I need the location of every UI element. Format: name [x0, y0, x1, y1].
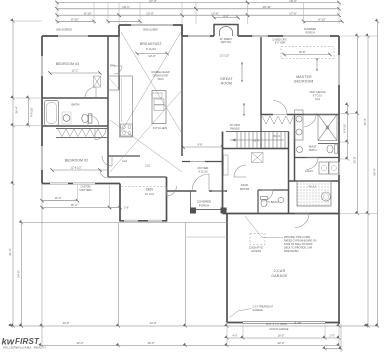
door master bedroom	[273, 101, 287, 115]
svg-text:4'-0": 4'-0"	[232, 334, 237, 338]
svg-text:BATH: BATH	[71, 103, 79, 107]
fridge	[108, 76, 120, 90]
bedroom wing bottom wall	[42, 183, 120, 185]
half bath toilet	[261, 199, 267, 207]
door bath	[88, 115, 99, 126]
svg-text:2'-6": 2'-6"	[124, 207, 129, 210]
svg-text:8'-10": 8'-10"	[84, 12, 92, 16]
joist diagonal 2	[121, 32, 181, 132]
hall/foyer wall above den	[108, 176, 167, 178]
right extension lines	[340, 113, 358, 115]
washer dryer	[319, 162, 329, 174]
svg-text:SHUTTERS: SHUTTERS	[79, 190, 92, 192]
svg-text:36'-4": 36'-4"	[15, 106, 19, 113]
svg-text:BEDROOM: BEDROOM	[294, 80, 313, 84]
svg-text:FIRE RATING: FIRE RATING	[284, 250, 299, 253]
foyer front wall with door opening	[167, 190, 228, 192]
door garage entry	[295, 214, 309, 228]
porch column right	[221, 208, 227, 214]
svg-text:16'-8": 16'-8"	[299, 50, 306, 54]
den ceiling dashed	[121, 186, 166, 188]
master bath bottom / laundry wall	[295, 157, 340, 159]
door mud room	[234, 165, 246, 177]
kw first watermark	[2, 337, 47, 350]
svg-text:12'-0": 12'-0"	[76, 341, 83, 345]
garage top wall	[223, 213, 340, 215]
door laundry	[306, 158, 318, 170]
water heater	[322, 192, 331, 201]
svg-text:GFCI IN GARAGE: GFCI IN GARAGE	[270, 328, 289, 331]
svg-text:2-CAR: 2-CAR	[274, 269, 286, 273]
door half bath	[262, 190, 273, 201]
window bedroom2 bottom 1	[50, 182, 68, 184]
left dimension line bath	[28, 97, 30, 126]
half bath sink	[278, 198, 284, 203]
window bedroom3 left	[41, 56, 43, 76]
svg-text:17'-6": 17'-6"	[289, 12, 297, 16]
right dimension line 2	[357, 36, 359, 214]
window breakfast slider	[131, 24, 173, 26]
svg-text:26'-8": 26'-8"	[353, 156, 357, 163]
master tray ceiling dashed	[281, 47, 334, 59]
svg-text:4'-0": 4'-0"	[223, 14, 229, 18]
door hall to bath	[100, 170, 108, 178]
svg-text:PORCH: PORCH	[305, 31, 314, 34]
door pantry	[114, 66, 122, 74]
wic / hall wall	[261, 115, 289, 149]
bottom right extension line	[340, 324, 342, 352]
svg-text:24'-8": 24'-8"	[17, 270, 21, 277]
svg-text:ROOM: ROOM	[240, 187, 250, 191]
svg-text:GREAT: GREAT	[220, 77, 233, 81]
stair bottom wall	[223, 148, 289, 150]
svg-text:8'-10": 8'-10"	[71, 18, 79, 22]
right dimension line 4	[377, 21, 379, 326]
svg-text:KELLERWILLIAMS. REALTY: KELLERWILLIAMS. REALTY	[3, 346, 46, 350]
front walk line	[20, 222, 227, 224]
svg-text:12'-0": 12'-0"	[146, 12, 154, 16]
window great room	[188, 35, 210, 37]
svg-text:LAUN.: LAUN.	[305, 169, 314, 173]
below-wing dim row 1	[40, 196, 79, 202]
kitchen counter left	[120, 76, 133, 137]
garage bottom wall + door jambs	[227, 322, 339, 324]
right dimension line 3	[367, 36, 369, 326]
svg-text:BREAKFAST: BREAKFAST	[140, 42, 162, 46]
ext line	[109, 185, 111, 208]
svg-text:19'-1": 19'-1"	[122, 5, 130, 9]
shower bottom wall	[318, 143, 339, 145]
svg-text:CUSTOM: CUSTOM	[81, 187, 91, 189]
svg-text:8'-10": 8'-10"	[318, 18, 326, 22]
stairs right wall	[288, 132, 290, 214]
island sink	[154, 99, 164, 105]
master bedroom left wall	[260, 36, 262, 115]
window den 2	[148, 220, 162, 222]
svg-text:ACCESS: ACCESS	[251, 250, 261, 253]
door bedroom2	[95, 129, 106, 140]
wall bedroom hall vertical	[107, 36, 109, 177]
master bath sink low	[297, 147, 303, 153]
window bedroom2 bottom 2	[73, 182, 95, 184]
cased opening master	[252, 35, 268, 37]
bottom right small dim	[325, 348, 341, 350]
top extension ticks	[56, 3, 58, 25]
svg-text:DEN: DEN	[146, 188, 153, 192]
fireplace bump-out	[214, 25, 238, 37]
top dimension row 4	[55, 18, 95, 23]
svg-text:13 R: 13 R	[253, 138, 259, 142]
plu room	[297, 181, 331, 206]
window bedroom2 left	[41, 146, 43, 170]
master vanity	[295, 110, 304, 140]
svg-text:CLO.: CLO.	[122, 160, 128, 163]
svg-text:44'-0": 44'-0"	[62, 321, 69, 325]
svg-text:27'-9": 27'-9"	[149, 0, 157, 3]
porch column left	[190, 208, 196, 214]
svg-text:16'-0": 16'-0"	[147, 341, 154, 345]
door hall closet	[102, 156, 112, 166]
site line porch	[185, 223, 187, 326]
joist diagonal 3	[110, 120, 182, 172]
bedroom2 dim	[50, 166, 101, 172]
window bedroom3 top	[58, 35, 88, 37]
svg-text:KITCHEN: KITCHEN	[153, 126, 168, 130]
svg-text:CROWN JOIST: CROWN JOIST	[152, 75, 169, 77]
svg-text:9' CLGS: 9' CLGS	[198, 171, 208, 174]
svg-text:BATH: BATH	[309, 148, 316, 152]
svg-text:12'-2": 12'-2"	[72, 69, 79, 73]
breakfast bay top wall	[119, 25, 182, 36]
joist diagonal 1	[121, 32, 181, 132]
kitchen counter inner line	[121, 78, 123, 122]
garage overhead door	[243, 322, 325, 324]
mud bench	[224, 155, 229, 175]
svg-text:41'-4": 41'-4"	[8, 248, 12, 255]
master dim	[282, 50, 331, 56]
garage attic access dashed	[250, 234, 265, 245]
fireplace arch	[220, 27, 233, 37]
svg-text:RAILING: RAILING	[230, 127, 240, 130]
bath toilet	[82, 114, 88, 122]
below-wing dim row 2	[40, 203, 111, 209]
foyer dim	[181, 144, 224, 149]
svg-text:GARAGE: GARAGE	[253, 309, 264, 312]
bedroom3 dim	[48, 69, 101, 75]
bottom dimension garage row	[227, 337, 339, 339]
foyer top wall cased opening	[182, 161, 223, 163]
site line den	[118, 223, 120, 326]
svg-text:10' CLG: 10' CLG	[145, 192, 154, 196]
master joist arrow	[316, 58, 318, 71]
site line left wall extension	[41, 184, 43, 346]
left dimension line outer	[12, 21, 14, 326]
joist diagonal 4	[110, 90, 182, 172]
svg-text:12'-6": 12'-6"	[211, 12, 219, 16]
bath walls	[42, 98, 108, 126]
svg-text:VENT FPL: VENT FPL	[221, 42, 233, 44]
svg-text:8'-6 1/2": 8'-6 1/2"	[343, 123, 347, 133]
svg-text:12'-6 1/2": 12'-6 1/2"	[70, 166, 81, 170]
svg-text:CLO.: CLO.	[145, 165, 151, 168]
front door	[192, 174, 209, 191]
svg-text:W.I.C.: W.I.C.	[273, 134, 281, 138]
svg-text:22'-0": 22'-0"	[277, 341, 284, 345]
linen x-box	[252, 153, 263, 163]
svg-text:FOYER: FOYER	[198, 166, 209, 170]
svg-text:15'-4": 15'-4"	[71, 203, 78, 207]
bath tub	[45, 101, 59, 126]
top dimension row 3	[55, 12, 120, 17]
den walls	[120, 177, 167, 221]
bedroom2 closet bifold	[58, 129, 102, 137]
svg-text:ROOM: ROOM	[221, 82, 232, 86]
svg-text:DOUBLE GLUED: DOUBLE GLUED	[152, 72, 170, 74]
stairs treads	[237, 132, 285, 148]
great room top wall	[182, 35, 339, 37]
door den	[167, 186, 177, 196]
kitchen hall wall	[108, 155, 140, 157]
svg-text:BEDROOM #2: BEDROOM #2	[65, 159, 89, 163]
svg-text:3050 EGRESS: 3050 EGRESS	[56, 29, 72, 32]
svg-text:½ BATH: ½ BATH	[267, 200, 278, 204]
svg-text:12'-0": 12'-0"	[148, 54, 156, 58]
bath sink	[63, 115, 70, 122]
range	[121, 124, 133, 136]
ext line	[77, 185, 79, 201]
bottom dimension row 3	[41, 345, 339, 347]
svg-text:59'-4": 59'-4"	[372, 168, 376, 175]
svg-text:36'-4": 36'-4"	[363, 118, 367, 125]
window master top	[283, 35, 330, 37]
shower	[318, 115, 337, 141]
kitchen island	[152, 91, 166, 124]
svg-text:16'-0" X 7'-0" OVHD: 16'-0" X 7'-0" OVHD	[266, 324, 287, 326]
stairs direction line	[230, 139, 284, 141]
svg-text:19'-0": 19'-0"	[289, 0, 297, 3]
top dimension row 2	[55, 5, 197, 10]
wall ovens	[152, 93, 162, 98]
great room joist arrow 2	[243, 103, 245, 116]
covered porch slab	[191, 191, 228, 210]
bottom dimension overall	[11, 325, 378, 327]
half bath wall	[258, 190, 289, 214]
great room joist arrow 1	[241, 62, 243, 82]
svg-text:8'-10": 8'-10"	[294, 321, 301, 325]
master bath left wall	[294, 115, 296, 182]
master toilet	[327, 145, 333, 153]
foyer sidelite	[212, 190, 225, 192]
door master bath	[304, 115, 316, 127]
bottom extension lines	[242, 324, 244, 338]
top dimension row 1	[55, 0, 249, 4]
svg-text:BEDROOM #3: BEDROOM #3	[56, 62, 80, 66]
stair rail	[226, 131, 289, 133]
svg-text:8'-0" HDR: 8'-0" HDR	[275, 42, 286, 45]
svg-text:16'-11": 16'-11"	[262, 5, 271, 9]
bedroom3 closet x-box	[94, 76, 101, 87]
pantry/closet wall	[118, 36, 120, 90]
svg-text:2'-0": 2'-0"	[329, 334, 334, 338]
door bedroom3	[85, 87, 96, 98]
svg-text:TAILS: TAILS	[157, 78, 164, 81]
svg-text:16'-0": 16'-0"	[278, 334, 285, 338]
window laundry right	[338, 162, 340, 175]
svg-text:MASTER: MASTER	[296, 75, 312, 79]
left extension lines	[13, 97, 42, 99]
svg-text:10'-0": 10'-0"	[55, 196, 62, 200]
stair left wall	[222, 132, 224, 214]
svg-text:11'-2 1/2": 11'-2 1/2"	[220, 55, 230, 58]
svg-text:GARAGE: GARAGE	[271, 274, 288, 278]
laundry bottom wall	[289, 180, 340, 182]
exterior walls: bedroom wing	[42, 25, 119, 184]
master bedroom bottom wall	[261, 114, 339, 116]
svg-text:9' CLGS: 9' CLGS	[146, 47, 156, 51]
window master right	[338, 55, 340, 85]
window den 1	[124, 220, 138, 222]
svg-text:PORCH: PORCH	[199, 203, 209, 207]
right exterior wall	[338, 36, 340, 324]
svg-text:PAN.: PAN.	[110, 64, 116, 68]
left dimension line lower	[21, 223, 23, 326]
svg-text:9'-8": 9'-8"	[198, 144, 203, 147]
svg-text:6040 SLIDER: 6040 SLIDER	[143, 29, 158, 32]
svg-text:14'-0": 14'-0"	[149, 321, 156, 325]
svg-text:P.L.U.: P.L.U.	[309, 185, 317, 189]
right dimension line 1	[347, 105, 349, 159]
kitchen / great room wall	[181, 25, 183, 156]
svg-text:9'-9 1/2": 9'-9 1/2"	[30, 107, 34, 117]
bedroom2 closet band	[56, 129, 108, 138]
wic bifold doors	[262, 116, 293, 124]
svg-text:42" DIRECT: 42" DIRECT	[220, 39, 233, 41]
svg-text:CLG: CLG	[315, 98, 320, 101]
porch step line	[186, 236, 228, 238]
garage left wall	[226, 214, 228, 323]
